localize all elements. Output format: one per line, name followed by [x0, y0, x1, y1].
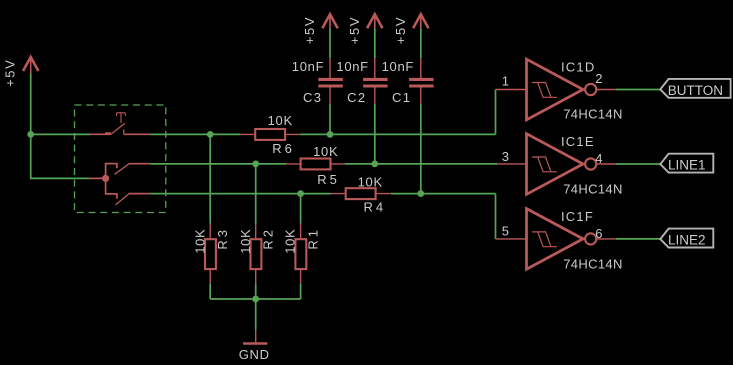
svg-text:+5V: +5V — [393, 16, 408, 44]
svg-text:+5V: +5V — [3, 59, 18, 87]
resistor R1 — [295, 224, 306, 284]
svg-text:R4: R4 — [364, 200, 387, 215]
svg-text:10K: 10K — [313, 144, 338, 159]
svg-text:IC1F: IC1F — [561, 209, 594, 224]
svg-text:R1: R1 — [305, 227, 320, 250]
svg-text:GND: GND — [239, 347, 270, 362]
capacitor C2 — [363, 58, 388, 104]
svg-text:1: 1 — [502, 74, 510, 89]
wire line1 left — [31, 133, 90, 135]
wire line1 switch to R6 — [150, 133, 240, 135]
svg-text:LINE1: LINE1 — [668, 158, 706, 173]
svg-text:2: 2 — [595, 71, 603, 86]
supply symbol +5V C2 — [367, 14, 382, 29]
svg-text:74HC14N: 74HC14N — [563, 257, 623, 272]
op-amp U1: inverter IC1D — [496, 59, 617, 120]
op-amp U2: inverter IC1E — [497, 134, 616, 195]
dashed enclosure box S1 — [75, 105, 166, 213]
svg-text:LINE2: LINE2 — [668, 233, 706, 248]
wire C3 bottom — [329, 104, 331, 134]
junction dot rail — [252, 296, 259, 303]
svg-text:IC1E: IC1E — [561, 134, 595, 149]
junction dot line1 left — [27, 131, 34, 138]
switch S1B common — [89, 164, 150, 205]
svg-text:10nF: 10nF — [292, 59, 324, 74]
svg-text:C1: C1 — [392, 90, 411, 105]
wire pin2 to BUTTON — [616, 89, 660, 91]
wire R2 top — [255, 164, 257, 224]
resistor R3 — [205, 224, 216, 284]
wire down to pin5 — [495, 194, 497, 239]
junction dot line1 R3 — [207, 131, 214, 138]
svg-text:6: 6 — [595, 226, 603, 241]
junction dot line2 C2 — [371, 161, 378, 168]
svg-text:10K: 10K — [238, 229, 253, 254]
svg-text:74HC14N: 74HC14N — [563, 182, 623, 197]
wire C2 top — [374, 29, 376, 58]
supply symbol +5V C1 — [413, 14, 428, 29]
svg-text:10K: 10K — [358, 175, 383, 190]
svg-text:3: 3 — [502, 149, 510, 164]
wire line2 switch to R5 — [150, 163, 286, 165]
junction dot line3 R1 — [297, 190, 304, 197]
wire line3 R4 to corner — [391, 193, 496, 195]
svg-text:C2: C2 — [347, 90, 366, 105]
svg-text:10nF: 10nF — [382, 59, 414, 74]
wire junction drop to switch common — [31, 134, 90, 178]
wire C2 bottom — [374, 104, 376, 164]
wire C3 top — [329, 29, 331, 58]
capacitor C1 — [409, 58, 434, 104]
flag LINE2 — [660, 229, 713, 248]
svg-text:10nF: 10nF — [336, 59, 368, 74]
wire R2 bottom — [255, 283, 257, 299]
junction dot line1 C3 — [327, 131, 334, 138]
resistor R5 — [286, 159, 345, 170]
flag BUTTON — [660, 79, 730, 98]
svg-text:BUTTON: BUTTON — [668, 83, 723, 98]
svg-text:R6: R6 — [272, 141, 295, 156]
supply symbol +5V left — [23, 57, 38, 74]
svg-text:R2: R2 — [260, 227, 275, 250]
wire R1 bottom — [300, 283, 302, 299]
wire C1 bottom — [420, 104, 422, 194]
wire line1 R6 to corner — [300, 133, 495, 135]
svg-text:5: 5 — [502, 224, 510, 239]
wire bottom rail — [210, 298, 300, 300]
svg-text:10K: 10K — [268, 113, 293, 128]
wire rail to GND — [255, 299, 257, 330]
svg-text:+5V: +5V — [302, 16, 317, 44]
wire R3 top — [209, 134, 211, 223]
wire line3 switch to R4 — [150, 193, 330, 195]
junction dot line2 R2 — [252, 161, 259, 168]
supply symbol +5V C3 — [322, 14, 337, 29]
op-amp U3: inverter IC1F — [496, 209, 617, 270]
flag LINE1 — [660, 154, 713, 173]
wire pin4 to LINE1 — [616, 163, 660, 165]
resistor R4 — [331, 188, 391, 199]
ground GND — [243, 330, 267, 344]
wire R1 top — [300, 194, 302, 224]
junction dot line3 C1 — [417, 190, 424, 197]
svg-text:10K: 10K — [283, 229, 298, 254]
svg-text:C3: C3 — [303, 90, 322, 105]
svg-text:74HC14N: 74HC14N — [563, 106, 623, 121]
switch S1A pushbutton top — [90, 113, 150, 135]
wire C1 top — [420, 29, 422, 58]
resistor R2 — [251, 224, 262, 284]
svg-text:4: 4 — [595, 151, 603, 166]
resistor R6 — [240, 129, 300, 140]
svg-text:+5V: +5V — [347, 16, 362, 44]
wire pin6 to LINE2 — [616, 238, 660, 240]
wire +5V down to line1 — [30, 74, 32, 135]
wire line2 R5 to pin3 — [345, 163, 497, 165]
svg-text:IC1D: IC1D — [561, 59, 595, 74]
svg-text:10K: 10K — [192, 229, 207, 254]
capacitor C3 — [318, 58, 343, 104]
svg-text:R3: R3 — [215, 227, 230, 250]
wire R3 bottom — [209, 283, 211, 299]
svg-text:R5: R5 — [317, 172, 340, 187]
wire up to pin1 — [495, 90, 497, 135]
